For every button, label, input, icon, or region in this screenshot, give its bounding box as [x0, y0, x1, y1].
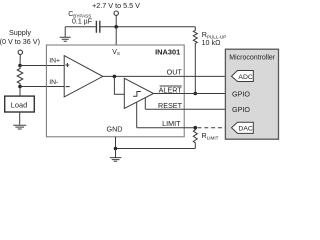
- supply terminal (top): [114, 11, 118, 15]
- svg-text:Microcontroller: Microcontroller: [229, 54, 276, 61]
- node junction Vs: [114, 25, 118, 29]
- wire output to comparator + input: [114, 76, 124, 94]
- svg-text:GPIO: GPIO: [232, 89, 250, 98]
- svg-text:RLIMIT: RLIMIT: [202, 131, 219, 141]
- wire GND pin: [115, 137, 117, 149]
- comparator U2: [124, 78, 153, 108]
- wire supply rail: [65, 26, 195, 28]
- resistor R_PULL-UP: [193, 27, 197, 94]
- wire LIMIT: [137, 127, 196, 129]
- op-amp - input mark: [66, 86, 70, 88]
- svg-text:VS: VS: [112, 49, 120, 56]
- svg-text:0.1 µF: 0.1 µF: [72, 19, 92, 26]
- wire IN+: [20, 65, 64, 67]
- wire IN- node to load: [19, 87, 21, 97]
- node junction op-amp output: [113, 75, 117, 79]
- ALERT overline: [160, 85, 182, 87]
- svg-text:GND: GND: [107, 124, 123, 133]
- wire IN-: [20, 86, 64, 88]
- ground (bypass cap): [60, 27, 71, 41]
- svg-text:(0 V to 36 V): (0 V to 36 V): [0, 37, 40, 46]
- wire load to ground: [19, 112, 21, 125]
- svg-text:OUT: OUT: [167, 68, 183, 77]
- svg-text:GPIO: GPIO: [232, 105, 250, 114]
- op-amp U1: [64, 56, 103, 97]
- capacitor C_BYPASS: [96, 21, 99, 33]
- wire LIMIT dashed to DAC: [198, 127, 232, 129]
- svg-text:Load: Load: [11, 100, 27, 109]
- INA301 box: [46, 45, 184, 137]
- resistor R_LIMIT: [193, 128, 197, 149]
- svg-text:IN-: IN-: [49, 79, 58, 86]
- svg-text:LIMIT: LIMIT: [162, 119, 181, 128]
- svg-text:+2.7 V to 5.5 V: +2.7 V to 5.5 V: [92, 1, 140, 10]
- wire RESET: [145, 108, 225, 110]
- node junction IN+: [18, 64, 22, 68]
- svg-text:RESET: RESET: [158, 101, 183, 110]
- op-amp + input mark: [65, 63, 69, 67]
- svg-text:ADC: ADC: [238, 74, 252, 81]
- wire terminal to rail: [115, 15, 117, 26]
- node junction LIMIT / R_LIMIT: [194, 126, 198, 130]
- resistor R_shunt: [17, 66, 23, 87]
- svg-text:CBYPASS: CBYPASS: [68, 11, 91, 19]
- wire LIMIT to comparator - input: [136, 102, 138, 128]
- ADC input flag: [232, 71, 254, 82]
- hysteresis symbol: [133, 92, 141, 97]
- node junction IN-: [18, 85, 22, 89]
- svg-text:DAC: DAC: [238, 125, 252, 132]
- wire terminal to IN+ node: [19, 55, 21, 66]
- wire ALERT: [154, 93, 226, 95]
- microcontroller box: [225, 49, 278, 139]
- svg-text:10 kΩ: 10 kΩ: [202, 38, 222, 47]
- svg-text:IN+: IN+: [49, 57, 60, 64]
- wire ground run: [116, 148, 196, 150]
- svg-text:ALERT: ALERT: [159, 86, 183, 95]
- wire RESET to comparator hypotenuse: [144, 98, 146, 110]
- DAC output flag: [232, 122, 254, 133]
- ground (load): [13, 125, 26, 129]
- ground (GND pin): [110, 149, 122, 162]
- supply terminal (left): [18, 50, 22, 54]
- node junction ground: [114, 147, 118, 151]
- node junction pull-up / ALERT: [194, 92, 198, 96]
- svg-text:INA301: INA301: [155, 48, 180, 57]
- wire OUT: [103, 75, 232, 77]
- load box: [5, 96, 35, 112]
- svg-text:Supply: Supply: [9, 28, 31, 37]
- wire Vs pin: [115, 27, 117, 45]
